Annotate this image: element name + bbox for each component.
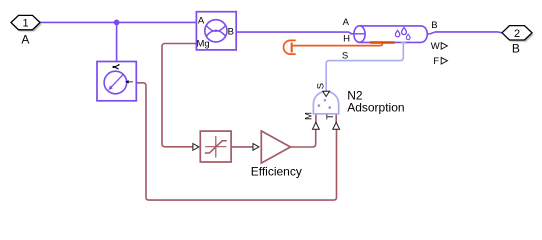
- svg-text:Adsorption: Adsorption: [347, 101, 404, 115]
- svg-text:B: B: [431, 20, 437, 31]
- svg-text:Efficiency: Efficiency: [251, 164, 302, 178]
- svg-text:H: H: [343, 34, 350, 45]
- svg-text:F: F: [433, 56, 439, 67]
- svg-text:M: M: [303, 112, 314, 120]
- svg-text:B: B: [512, 42, 520, 56]
- svg-text:Mg: Mg: [197, 38, 210, 49]
- svg-text:A: A: [198, 15, 205, 26]
- svg-text:B: B: [228, 27, 234, 38]
- svg-text:T: T: [325, 114, 336, 120]
- svg-text:A: A: [21, 32, 29, 46]
- svg-text:2: 2: [514, 28, 520, 40]
- svg-text:S: S: [342, 51, 348, 62]
- svg-text:1: 1: [23, 18, 29, 30]
- svg-text:S: S: [316, 83, 327, 89]
- svg-text:A: A: [343, 17, 350, 28]
- svg-text:W: W: [431, 41, 440, 52]
